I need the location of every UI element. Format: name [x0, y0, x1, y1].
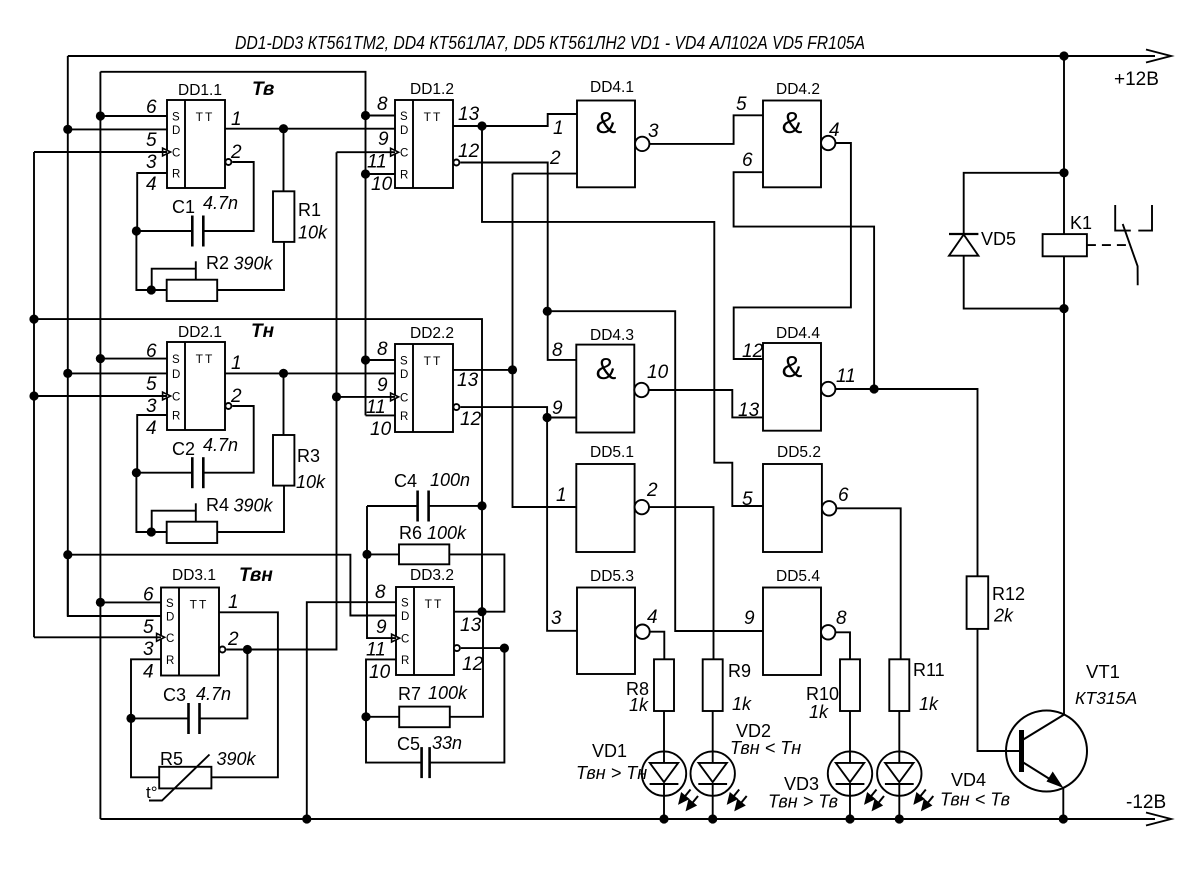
DD4.3 output bubble pin10: [634, 383, 648, 397]
wire: pin12 net branch to DD5.4 input 9: [547, 311, 763, 631]
svg-text:5: 5: [146, 130, 157, 151]
svg-text:Тн: Тн: [251, 321, 275, 342]
svg-text:R7: R7: [398, 684, 421, 704]
resistor R7: [399, 707, 450, 728]
wire: R2 right to R1 bottom: [217, 242, 284, 290]
capacitor C3: [187, 703, 190, 734]
svg-text:C: C: [400, 148, 408, 160]
wire: DD4.1 pin2 input from DD5.1 bus: [513, 173, 578, 175]
svg-text:10k: 10k: [298, 223, 328, 243]
svg-text:5: 5: [146, 374, 157, 395]
LED VD2: [691, 751, 735, 795]
wire: DD3.1 pin2 to clock chain vertical: [226, 152, 336, 649]
svg-text:R6: R6: [399, 523, 422, 543]
svg-text:10: 10: [647, 362, 669, 383]
svg-text:3: 3: [143, 639, 154, 660]
DD2.1 pin2 inversion bubble: [225, 403, 231, 409]
svg-text:DD4.3: DD4.3: [590, 327, 634, 344]
svg-text:C2: C2: [172, 439, 195, 459]
LED VD1: [642, 751, 686, 795]
NAND gate DD4.2: [763, 101, 821, 188]
junction pin12 net / DD5.3 branch: [543, 413, 552, 422]
wire: DD1.1 pin2 to C1 right plate: [203, 162, 253, 231]
svg-text:TT: TT: [190, 598, 209, 612]
svg-text:R12: R12: [992, 584, 1025, 604]
junction pin1 / R3: [279, 369, 288, 378]
svg-text:2: 2: [230, 142, 242, 163]
svg-text:S: S: [401, 598, 409, 610]
svg-text:S: S: [400, 111, 408, 123]
DD5.4 output bubble pin8: [821, 625, 835, 639]
svg-text:9: 9: [377, 375, 388, 396]
VD1 emission arrows: [680, 790, 699, 810]
-12V rail arrowhead: [1146, 813, 1171, 826]
svg-text:1k: 1k: [919, 694, 939, 714]
resistor R12: [967, 576, 989, 629]
capacitor C5: [420, 747, 423, 778]
svg-text:Твн < Тв: Твн < Тв: [940, 790, 1010, 810]
junction S/R bus / DD1.2 S: [361, 111, 370, 120]
wire: DD3.1 C input: [34, 636, 161, 638]
svg-text:t°: t°: [146, 783, 158, 802]
wire: DD3.2 D input from D bus: [68, 555, 396, 616]
svg-text:R: R: [400, 170, 408, 182]
svg-text:2: 2: [227, 629, 239, 650]
junction pin13 / vertical bus A: [508, 365, 517, 374]
wire: S bus vertical x=100.4 to -12V rail: [99, 72, 101, 819]
wire: VD1 cathode to rail: [663, 784, 665, 819]
svg-text:DD2.1: DD2.1: [178, 324, 222, 341]
svg-text:8: 8: [552, 340, 563, 361]
VT1 emitter stroke with arrow: [1023, 762, 1061, 786]
svg-text:R5: R5: [160, 749, 183, 769]
wire: R1 top to pin1 line: [283, 129, 285, 192]
svg-text:9: 9: [552, 398, 563, 419]
DD1.2 pin12 inversion bubble: [453, 160, 459, 166]
DD2.2 pin12 inversion bubble: [453, 404, 459, 410]
svg-text:4.7n: 4.7n: [203, 435, 238, 455]
svg-text:2: 2: [230, 386, 242, 407]
wire: DD3.1 R input: [131, 659, 161, 718]
svg-text:Твн < Тн: Твн < Тн: [730, 738, 801, 758]
wire: VD4 anode: [898, 711, 900, 763]
junction R vertical / R7 left: [361, 712, 370, 721]
svg-text:D: D: [401, 611, 409, 623]
svg-text:6: 6: [742, 150, 753, 171]
wire: C3 left plate link: [131, 717, 189, 719]
svg-text:DD3.1: DD3.1: [172, 567, 216, 584]
wire: down to VT1 collector: [1063, 309, 1065, 714]
VT1 base bar: [1019, 730, 1024, 772]
resistor R4 (trimmer body): [167, 522, 218, 543]
DD3.2 pin12 inversion bubble: [454, 645, 460, 651]
svg-text:9: 9: [744, 608, 755, 629]
svg-text:10: 10: [369, 662, 391, 683]
svg-text:R: R: [401, 655, 409, 667]
svg-text:&: &: [596, 105, 617, 140]
svg-text:9: 9: [376, 617, 387, 638]
wire: DD2.1 pin2 to C2 right plate: [203, 406, 253, 473]
svg-text:3: 3: [146, 152, 157, 173]
DD5.3 output bubble pin4: [635, 625, 649, 639]
wire: DD4.2 pin6 input from DD4.4 output: [734, 172, 875, 388]
junction S bus / DD1.1 S: [96, 111, 105, 120]
svg-text:11: 11: [836, 366, 856, 387]
junction D bus / DD2.1 D: [63, 369, 72, 378]
svg-text:11: 11: [366, 640, 386, 661]
wire: VT1 emitter to rail: [1062, 787, 1064, 819]
svg-text:13: 13: [458, 104, 480, 125]
svg-text:6: 6: [143, 585, 154, 606]
svg-text:DD4.4: DD4.4: [776, 325, 820, 342]
junction S wire / rail: [302, 814, 311, 823]
svg-text:13: 13: [460, 615, 482, 636]
svg-text:5: 5: [742, 489, 753, 510]
svg-text:S: S: [166, 598, 174, 610]
junction pin13 / C4 net vertical: [477, 607, 486, 616]
flip-flop DD2.1: [167, 342, 225, 430]
svg-text:+12В: +12В: [1114, 69, 1159, 90]
diode VD5: [949, 233, 978, 235]
DD4.1 output bubble pin3: [635, 137, 649, 151]
wire: DD4.3 pin10 to DD4.4 pin13: [649, 390, 763, 417]
svg-text:R: R: [400, 411, 408, 423]
svg-text:D: D: [400, 125, 408, 137]
svg-text:4.7n: 4.7n: [203, 193, 238, 213]
svg-text:DD3.2: DD3.2: [410, 567, 454, 584]
svg-text:R: R: [172, 411, 180, 423]
svg-text:DD4.2: DD4.2: [776, 81, 820, 98]
NAND gate DD4.4: [763, 343, 821, 431]
svg-text:1: 1: [228, 592, 239, 613]
wire: DD5.3 pin4 to R8: [650, 632, 665, 660]
wire: R7 left link: [366, 716, 399, 718]
DD4.2 output bubble pin4: [821, 136, 835, 150]
transistor VT1: [1006, 711, 1087, 792]
wire: pin13 branch down and right to DD5.2 input: [482, 126, 763, 506]
wire: C3 right plate to pin2: [200, 650, 248, 719]
svg-text:1: 1: [231, 109, 242, 130]
wire: DD1.2 R input: [366, 173, 396, 175]
junction pin12 corner: [500, 644, 509, 653]
relay coil K1: [1043, 234, 1087, 256]
wire: DD3.2 pin13 output: [449, 554, 504, 611]
junction clock bus / DD2.1 C: [29, 391, 38, 400]
flip-flop DD3.2: [396, 587, 454, 675]
svg-text:VT1: VT1: [1086, 661, 1120, 682]
svg-text:TT: TT: [424, 110, 443, 124]
VD4 emission arrows: [915, 790, 934, 810]
svg-text:8: 8: [836, 608, 847, 629]
svg-text:4.7n: 4.7n: [196, 684, 231, 704]
svg-text:33n: 33n: [432, 733, 462, 753]
inverter DD5.1: [576, 464, 634, 552]
svg-text:11: 11: [367, 152, 387, 173]
inverter DD5.4: [763, 588, 821, 676]
svg-text:S: S: [172, 354, 180, 366]
svg-text:12: 12: [462, 654, 484, 675]
inverter DD5.2: [763, 464, 822, 552]
svg-text:1: 1: [553, 118, 564, 139]
DD3.1 pin2 inversion bubble: [219, 647, 225, 653]
+12V rail arrowhead: [1146, 50, 1171, 63]
svg-text:Твн: Твн: [239, 565, 273, 586]
svg-text:3: 3: [551, 608, 562, 629]
wire: DD2.1 C input: [34, 395, 167, 397]
wire: DD2.1 D input: [68, 372, 167, 374]
svg-text:R2: R2: [206, 253, 229, 273]
wire: VD2 cathode to rail: [712, 784, 714, 819]
svg-text:DD5.2: DD5.2: [777, 444, 821, 461]
junction pin2 / C3 branch: [243, 645, 252, 654]
wire: VD2 anode: [712, 711, 714, 763]
svg-text:C: C: [166, 633, 174, 645]
svg-text:100k: 100k: [428, 683, 468, 703]
svg-text:2: 2: [549, 148, 561, 169]
wire: C2 left plate link: [136, 472, 192, 474]
junction C1 left: [132, 226, 141, 235]
NAND gate DD4.1: [577, 101, 635, 188]
svg-text:DD1.2: DD1.2: [410, 81, 454, 98]
junction clock chain / DD2.2 C: [332, 392, 341, 401]
resistor R8: [654, 659, 674, 711]
resistor R10: [840, 659, 860, 711]
junction clock bus / DD3.2 Q net: [29, 315, 38, 324]
junction on +12V rail: [1059, 51, 1068, 60]
svg-text:6: 6: [146, 341, 157, 362]
wire: DD2.1 pin1 output to DD2.2 D: [225, 372, 395, 374]
wire: DD2.2 R input: [366, 414, 396, 416]
svg-text:10k: 10k: [296, 472, 326, 492]
VD3 emission arrows: [866, 790, 885, 810]
svg-text:TT: TT: [196, 352, 215, 366]
svg-text:C3: C3: [163, 685, 186, 705]
inverter DD5.3: [577, 588, 635, 675]
junction S bus / DD3.1 S: [96, 598, 105, 607]
svg-text:3: 3: [648, 121, 659, 142]
svg-text:C: C: [401, 634, 409, 646]
resistor R6: [399, 544, 449, 564]
svg-text:КТ315А: КТ315А: [1075, 688, 1137, 708]
wire: pin12 net branch down to DD5.3 input 3: [547, 418, 577, 631]
svg-text:8: 8: [377, 339, 388, 360]
wire: DD1.2 S input: [366, 115, 396, 117]
junction K1 bottom: [1059, 304, 1068, 313]
svg-text:S: S: [400, 356, 408, 368]
svg-text:10: 10: [371, 174, 393, 195]
wire: DD1.1 C input: [34, 151, 167, 153]
svg-text:VD5: VD5: [981, 229, 1016, 249]
svg-text:8: 8: [377, 94, 388, 115]
DD5.1 output bubble pin2: [635, 500, 649, 514]
svg-text:R: R: [172, 169, 180, 181]
wire: DD4.2 pin4 to DD4.4 pin12: [734, 143, 851, 359]
wire: DD1.1 R input: [137, 173, 167, 231]
wire: top jumper y=71.8 from S bus to S/R bus: [100, 72, 365, 416]
resistor R2 (trimmer body): [167, 280, 218, 301]
R5 diagonal stroke: [149, 755, 210, 801]
svg-text:12: 12: [742, 341, 764, 362]
wire: DD3.2 C input vertical: [367, 506, 396, 638]
junction S bus / DD2.1 S: [96, 354, 105, 363]
wire: VD5 bottom branch: [964, 256, 1064, 309]
K1 contact left post: [1115, 205, 1131, 231]
wire: clock net horizontal y=319 (DD3.2 Q to DD1/DD2 clocks): [34, 319, 482, 612]
R2 wiper tap: [195, 261, 197, 279]
svg-text:C1: C1: [172, 197, 195, 217]
wire: DD5.2 pin6 to R11: [836, 508, 900, 659]
svg-text:C: C: [172, 148, 180, 160]
thermistor R5 body: [159, 767, 211, 789]
svg-text:2: 2: [646, 480, 658, 501]
svg-text:1: 1: [231, 353, 242, 374]
svg-text:DD5.3: DD5.3: [590, 568, 634, 585]
LED VD3: [828, 751, 872, 795]
svg-text:D: D: [172, 125, 180, 137]
junction S/R bus / DD1.2 R: [361, 169, 370, 178]
wire: clock bus vertical x=34 (DD1.1.C to DD3.1.C): [33, 152, 35, 637]
wire: C1 left down to R2: [136, 231, 166, 290]
svg-text:R9: R9: [728, 661, 751, 681]
wire: DD4.1 pin3 to DD4.2 pin5: [649, 115, 763, 144]
wire: D bus vertical x=67.8 from +12V rail to DD3.1 D: [67, 56, 69, 616]
resistor R1: [273, 191, 294, 242]
wire: DD2.1 S input: [100, 358, 167, 360]
svg-text:390k: 390k: [217, 749, 257, 769]
NAND gate DD4.3: [576, 345, 634, 433]
wire: DD3.2 S input from -12V rail: [307, 602, 396, 819]
junction S/R bus / DD2.2 S: [361, 355, 370, 364]
svg-text:C: C: [400, 392, 408, 404]
junction pin11 / DD4.2 pin6 branch: [870, 384, 879, 393]
svg-text:-12В: -12В: [1126, 792, 1166, 813]
svg-text:Тв: Тв: [252, 79, 274, 100]
svg-text:&: &: [596, 351, 617, 386]
flip-flop DD1.2: [395, 100, 453, 188]
wire: vertical bus A: [513, 174, 577, 507]
svg-text:K1: K1: [1070, 213, 1092, 233]
wire: DD1.1 S input: [100, 115, 167, 117]
svg-text:DD2.2: DD2.2: [410, 325, 454, 342]
svg-text:VD1: VD1: [592, 741, 627, 761]
wire: DD4.4 pin11 to R12: [835, 389, 977, 576]
svg-text:R: R: [166, 655, 174, 667]
svg-text:10: 10: [370, 419, 392, 440]
wire: C1 left plate to R loop: [136, 230, 192, 232]
svg-text:1k: 1k: [629, 695, 649, 715]
wire: DD5.1 pin2 to R9: [649, 507, 714, 659]
junction R4 wiper: [147, 527, 156, 536]
capacitor C2: [191, 457, 194, 488]
junction pin13 branch: [477, 121, 486, 130]
wire: DD2.2 pin13 output to DD4 bus: [453, 369, 513, 371]
wire: VD5 top branch: [964, 173, 1064, 234]
svg-text:390k: 390k: [234, 496, 274, 516]
svg-text:4: 4: [647, 607, 658, 628]
wire: VD3 anode: [849, 711, 851, 763]
capacitor C1: [191, 216, 194, 247]
svg-text:TT: TT: [196, 110, 215, 124]
svg-text:C: C: [172, 392, 180, 404]
R4 wiper link: [152, 511, 196, 532]
svg-text:3: 3: [146, 396, 157, 417]
svg-text:C5: C5: [397, 734, 420, 754]
junction emitter / rail: [1059, 814, 1068, 823]
svg-text:100k: 100k: [427, 523, 467, 543]
-12V bottom rail wire: [100, 818, 1155, 820]
junction C2 left: [132, 468, 141, 477]
svg-text:9: 9: [378, 129, 389, 150]
junction VD3 / rail: [845, 814, 854, 823]
svg-text:TT: TT: [425, 597, 444, 611]
wire: R12 bottom to VT1 base: [978, 629, 1020, 751]
svg-text:6: 6: [146, 97, 157, 118]
junction C4 right / vertical: [477, 501, 486, 510]
svg-text:6: 6: [838, 485, 849, 506]
junction VD1 / rail: [659, 814, 668, 823]
wire: +12V down to relay K1: [1063, 56, 1065, 234]
svg-text:4: 4: [146, 174, 157, 195]
svg-text:DD1.1: DD1.1: [178, 82, 222, 99]
junction VD5 branch: [1059, 168, 1068, 177]
junction C3 left: [126, 714, 135, 723]
junction VD2 / rail: [708, 814, 717, 823]
VT1 collector stroke: [1023, 714, 1066, 740]
svg-text:R4: R4: [206, 495, 229, 515]
flip-flop DD2.2: [395, 344, 453, 432]
svg-text:DD1-DD3 КТ561ТМ2, DD4 КТ561ЛА7: DD1-DD3 КТ561ТМ2, DD4 КТ561ЛА7, DD5 КТ56…: [235, 32, 865, 53]
svg-text:D: D: [400, 369, 408, 381]
+12V top rail wire: [68, 55, 1155, 57]
svg-text:VD4: VD4: [951, 770, 986, 790]
svg-text:&: &: [782, 349, 803, 384]
wire: C3 left down to R5: [131, 718, 159, 777]
svg-text:D: D: [172, 369, 180, 381]
wire: VD1 anode: [663, 711, 665, 763]
flip-flop DD3.1: [161, 588, 219, 676]
wire: DD1.1 D input: [68, 128, 167, 130]
flip-flop DD1.1: [167, 100, 225, 188]
junction D bus / DD1.1 D: [63, 125, 72, 134]
svg-text:DD4.1: DD4.1: [590, 79, 634, 96]
capacitor C4: [416, 491, 419, 522]
svg-text:8: 8: [375, 582, 386, 603]
svg-text:1: 1: [556, 485, 567, 506]
svg-text:S: S: [172, 112, 180, 124]
DD1.1 pin2 inversion bubble: [225, 159, 231, 165]
wire: K1 bottom: [1063, 256, 1065, 308]
wire: DD3.2 pin12 to C5 right: [430, 648, 505, 763]
LED VD4: [877, 751, 921, 795]
svg-text:&: &: [782, 105, 803, 140]
svg-text:4: 4: [829, 120, 840, 141]
DD5.2 output bubble pin6: [822, 501, 836, 515]
wire: DD3.1 S input: [100, 601, 161, 603]
wire: DD2.2 C input: [337, 396, 396, 398]
svg-text:390k: 390k: [234, 254, 274, 274]
svg-text:DD5.1: DD5.1: [590, 444, 634, 461]
svg-text:12: 12: [458, 141, 480, 162]
wire: DD1.2 pin12 to DD4.3 pin8: [460, 163, 576, 360]
junction VD4 / rail: [895, 814, 904, 823]
wire: DD3.1 D input: [68, 555, 161, 616]
svg-text:Твн > Тв: Твн > Тв: [768, 792, 838, 812]
svg-text:2k: 2k: [993, 606, 1014, 626]
wire: DD1.2 C input: [337, 151, 396, 153]
svg-text:Твн > Тн: Твн > Тн: [576, 763, 647, 783]
resistor R3: [273, 435, 294, 486]
svg-text:DD5.4: DD5.4: [776, 568, 820, 585]
